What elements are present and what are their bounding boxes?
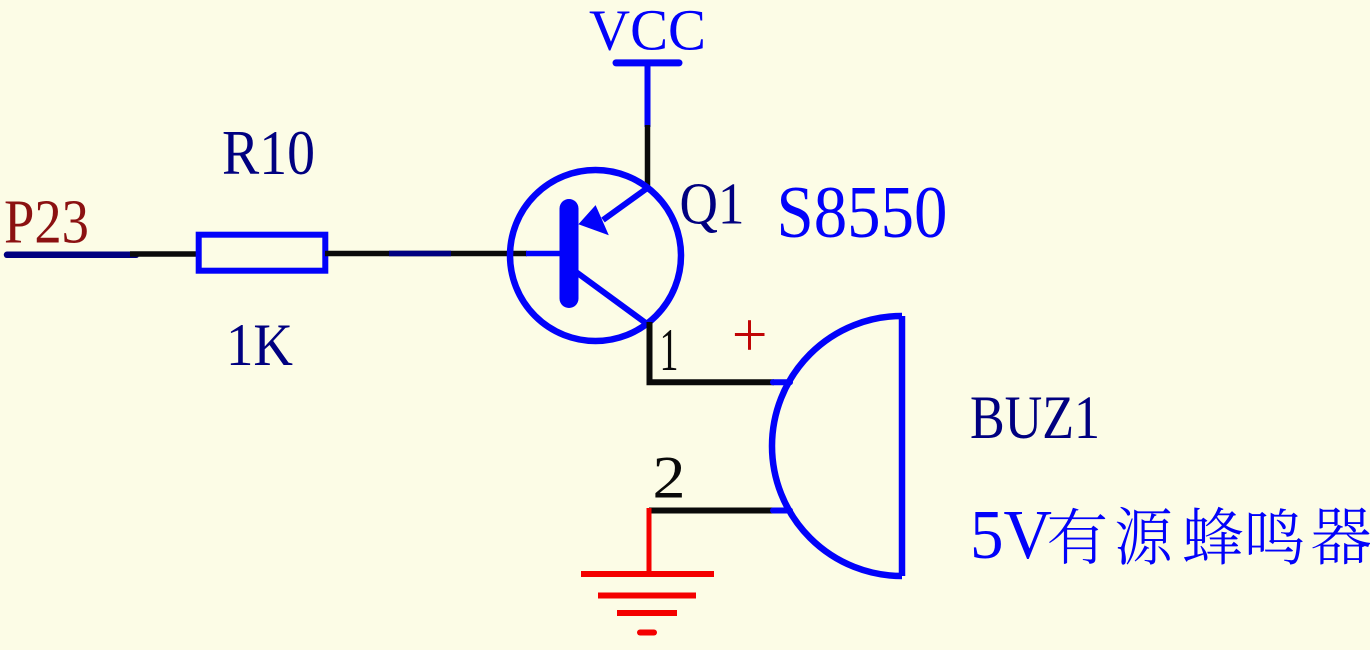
resistor R10 [199,235,326,271]
label 有源蜂鸣器 [1049,507,1370,565]
polarity + [735,320,765,350]
wire P23 to R10 [130,251,199,257]
svg-text:1K: 1K [226,312,293,378]
svg-text:2: 2 [653,445,686,511]
ground [581,508,714,633]
svg-text:VCC: VCC [589,0,706,62]
svg-text:Q1: Q1 [680,171,745,237]
svg-text:P23: P23 [4,188,89,256]
wire buzzer pin 2 to ground [649,508,774,514]
svg-text:5V: 5V [970,497,1052,574]
wire VCC to Q1 emitter [645,125,651,190]
transistor Q1 (PNP S8550) [510,170,681,341]
buzzer pin 2 stub [773,508,790,514]
svg-text:1: 1 [660,317,679,383]
svg-text:BUZ1: BUZ1 [970,385,1100,452]
wire Q1 collector to buzzer pin 1 [650,322,775,382]
buzzer BUZ1 [772,316,902,576]
buzzer pin 1 stub [773,379,790,385]
wire P23 net stub [7,252,136,259]
power VCC [589,0,706,127]
wire highlighted segment [389,251,451,257]
wire R10 to Q1 base [325,251,527,257]
svg-text:S8550: S8550 [777,172,948,254]
svg-text:R10: R10 [222,118,315,188]
